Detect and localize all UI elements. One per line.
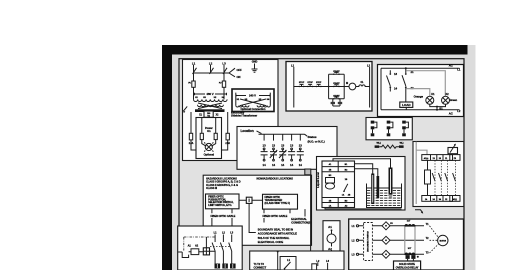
svg-text:STOP: STOP — [307, 82, 313, 84]
svg-text:L3: L3 — [222, 61, 226, 65]
svg-text:SOLID STATE: SOLID STATE — [399, 262, 415, 266]
svg-text:(N.O. or N.C.): (N.O. or N.C.) — [308, 139, 325, 143]
svg-text:13: 13 — [394, 72, 398, 76]
svg-text:MOTOR: MOTOR — [440, 240, 447, 242]
svg-text:2.5A: 2.5A — [189, 142, 194, 145]
svg-text:Optional Connection: Optional Connection — [240, 107, 265, 111]
svg-text:X2: X2 — [445, 92, 449, 96]
svg-text:Shielded Transformer: Shielded Transformer — [231, 114, 257, 118]
svg-text:OFF: OFF — [237, 68, 243, 72]
svg-text:CONNECTION(S): CONNECTION(S) — [291, 220, 311, 224]
svg-text:OVERLOAD RELAY: OVERLOAD RELAY — [396, 266, 419, 270]
svg-text:FIBER OPTIC CABLE: FIBER OPTIC CABLE — [263, 214, 288, 218]
svg-text:Status: Status — [308, 135, 317, 139]
svg-text:A1(+): A1(+) — [424, 157, 429, 160]
svg-text:ACCORDANCE WITH ARTICLE: ACCORDANCE WITH ARTICLE — [258, 232, 297, 236]
svg-text:AC: AC — [449, 112, 453, 116]
svg-text:T1 T2 T3: T1 T2 T3 — [254, 262, 265, 266]
svg-text:Optional: Optional — [204, 152, 215, 156]
svg-text:CONNECT: CONNECT — [254, 266, 267, 270]
svg-text:ON: ON — [237, 75, 241, 79]
svg-text:STOP: STOP — [316, 82, 322, 84]
svg-text:GND: GND — [252, 60, 258, 64]
svg-text:ELECTRICAL CODE: ELECTRICAL CODE — [258, 240, 284, 244]
svg-text:W(-): W(-) — [400, 143, 404, 145]
svg-text:LOAD: LOAD — [402, 103, 411, 107]
svg-text:Orange: Orange — [414, 94, 424, 98]
svg-text:W(+): W(+) — [377, 143, 382, 145]
svg-text:22: 22 — [410, 86, 414, 90]
svg-text:Liquid Level: Liquid Level — [316, 172, 320, 188]
svg-text:FIBER OPTIC CABLE: FIBER OPTIC CABLE — [211, 214, 236, 218]
svg-text:14: 14 — [263, 163, 267, 167]
svg-text:Green: Green — [449, 98, 457, 102]
svg-text:14: 14 — [394, 87, 398, 91]
svg-text:Location: Location — [241, 129, 254, 133]
svg-text:A2(-): A2(-) — [453, 198, 457, 201]
svg-text:L1: L1 — [192, 61, 196, 65]
svg-text:BOUNDARY SEAL TO BE IN: BOUNDARY SEAL TO BE IN — [258, 227, 293, 231]
svg-text:240 V: 240 V — [249, 94, 256, 98]
svg-text:X1: X1 — [431, 92, 435, 96]
svg-text:DISCONNECT SWITCH: DISCONNECT SWITCH — [368, 230, 370, 251]
svg-text:A1: A1 — [328, 225, 332, 229]
svg-text:AC: AC — [449, 64, 453, 68]
svg-text:501-5 OF THE NATIONAL: 501-5 OF THE NATIONAL — [258, 236, 290, 240]
svg-text:13: 13 — [263, 144, 267, 148]
svg-text:2.5A: 2.5A — [225, 142, 230, 145]
svg-text:480 V: 480 V — [206, 92, 213, 96]
svg-text:M: M — [346, 81, 348, 85]
svg-text:CLASS III: CLASS III — [206, 186, 217, 190]
svg-text:LIMIT SWITCH, ETC.: LIMIT SWITCH, ETC. — [208, 203, 232, 207]
svg-text:NONHAZARDOUS LOCATIONS: NONHAZARDOUS LOCATIONS — [257, 177, 294, 181]
svg-text:STOP: STOP — [299, 82, 305, 84]
svg-text:On: On — [207, 129, 211, 133]
svg-text:L2: L2 — [209, 61, 213, 65]
svg-text:(CLASS 5600 TYPE F): (CLASS 5600 TYPE F) — [265, 201, 291, 205]
